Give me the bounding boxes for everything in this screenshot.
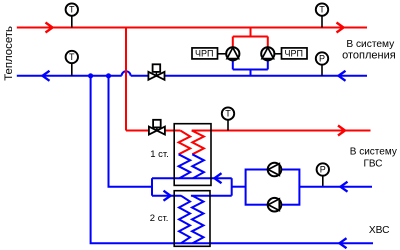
box CHRP left (frequency drive)	[192, 48, 218, 59]
svg-text:В систему: В систему	[350, 147, 397, 158]
exchanger 1 left coil blue part	[179, 154, 191, 178]
svg-text:ХВС: ХВС	[369, 225, 390, 236]
svg-text:отопления: отопления	[342, 49, 396, 61]
exchanger 2 right coil	[192, 196, 204, 244]
svg-text:ЧРП: ЧРП	[195, 48, 213, 58]
wire: left manifold bar	[151, 178, 153, 196]
arrow on red GVS line	[338, 126, 345, 136]
arrow on lower branch	[164, 191, 171, 201]
wire: blue stub right pump	[267, 60, 269, 70]
sensor T3 on red main right	[316, 3, 328, 27]
wire: red GVS line right segment	[192, 130, 371, 132]
wire: red GVS line left segment	[126, 130, 180, 132]
arrow on GVS return	[341, 182, 348, 192]
valve V1 on blue main	[148, 64, 164, 80]
pump P1 heating left	[226, 47, 239, 60]
svg-text:2 ст.: 2 ст.	[150, 213, 169, 224]
exchanger 2 left coil	[179, 196, 190, 244]
heat exchanger stage 1 box	[174, 124, 211, 186]
wire: lower branch through exchanger 2 right segment	[191, 195, 232, 197]
wire: link left CHRP box to pump	[218, 53, 227, 55]
arrow on red main right	[337, 23, 344, 33]
node: junction dot riser B	[106, 73, 111, 78]
arrow on upper branch	[215, 173, 222, 183]
arrow on blue main right	[339, 71, 346, 81]
box CHRP right (frequency drive)	[282, 48, 308, 59]
wire: blue stub left pump	[232, 60, 234, 70]
wire: GVS pump loop rectangle	[246, 170, 300, 205]
wire: link right pump to CHRP box	[275, 53, 282, 55]
wire: upper branch to exchanger 1	[152, 177, 232, 179]
valve V2 on red GVS line	[149, 120, 165, 135]
svg-text:Т: Т	[69, 5, 75, 15]
exchanger 1 right coil red part	[192, 131, 204, 155]
sensor P2 on GVS return line	[317, 163, 329, 186]
arrow on red main left	[46, 23, 53, 33]
wire: red stub right pump	[267, 37, 269, 48]
arrow on XVS line	[340, 238, 347, 248]
exchanger 1 left coil red part	[179, 131, 191, 155]
pump P2 heating right	[261, 47, 274, 60]
wire: lower branch through exchanger 2 left segment	[152, 195, 181, 197]
wire: right manifold bar	[231, 178, 233, 196]
sensor P1 on blue main right	[316, 52, 328, 76]
svg-text:Т: Т	[225, 109, 231, 119]
svg-text:Р: Р	[319, 54, 325, 64]
heat exchanger stage 2 box	[174, 191, 210, 247]
wire: heating pump loop top bar (red)	[233, 36, 268, 38]
sensor T4 on GVS red line	[222, 107, 234, 130]
pump P4 GVS bottom	[268, 198, 282, 212]
wire: red branch down to heating pumps	[250, 28, 252, 37]
node: junction dot riser A	[88, 73, 93, 78]
wire: red supply main (Теплосеть)	[17, 27, 367, 29]
svg-text:Теплосеть: Теплосеть	[3, 26, 15, 81]
wire: blue return main left part	[17, 75, 122, 77]
wire: blue branch pump loop to main	[250, 70, 252, 76]
svg-text:Р: Р	[320, 165, 326, 175]
svg-text:Т: Т	[319, 5, 325, 15]
wire: GVS return line to right edge	[299, 186, 372, 188]
svg-text:Т: Т	[69, 52, 75, 62]
wire: riser A from blue main down to XVS	[91, 76, 373, 243]
arrow on blue main left	[43, 71, 50, 81]
wire: red riser to GVS line	[125, 28, 127, 131]
svg-text:1 ст.: 1 ст.	[150, 149, 169, 160]
wire: heating pump loop bottom bar (blue)	[233, 69, 268, 71]
wire: blue main hop over red riser	[122, 71, 131, 76]
wire: riser B from blue main to exchanger feed	[109, 76, 153, 187]
wire: connector to GVS pump loop	[232, 186, 246, 188]
sensor T1 on red main	[66, 3, 78, 27]
wire: blue return main right part	[131, 75, 367, 77]
pump P3 GVS top	[268, 163, 282, 177]
exchanger 1 right coil blue part	[192, 154, 204, 178]
svg-text:В систему: В систему	[346, 39, 395, 50]
wire: red stub left pump	[232, 37, 234, 48]
svg-text:ЧРП: ЧРП	[285, 48, 303, 58]
sensor T2 on blue main	[66, 51, 78, 76]
svg-text:ГВС: ГВС	[364, 159, 383, 170]
